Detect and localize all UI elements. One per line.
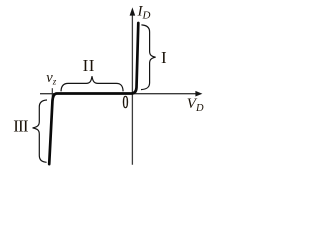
brace III (left of zener drop) (33, 100, 47, 162)
svg-text:0: 0 (123, 93, 129, 113)
svg-text:II: II (83, 56, 95, 75)
svg-text:III: III (13, 116, 29, 135)
horizontal axis arrowhead (195, 91, 202, 97)
brace II (over flat reverse region) (61, 76, 123, 91)
diode characteristic curve (zener drop, flat reverse region, forward rise) (49, 23, 138, 164)
vertical axis arrowhead (130, 7, 136, 15)
horizontal axis (V_D axis) (40, 93, 197, 95)
v_z tick mark on axis (51, 88, 53, 97)
svg-text:I: I (161, 48, 167, 67)
vertical axis (I_D axis) (131, 10, 133, 165)
brace I (right of forward rise) (141, 25, 156, 90)
